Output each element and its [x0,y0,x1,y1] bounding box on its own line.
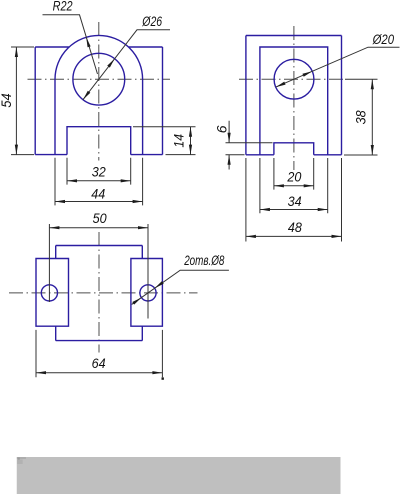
svg-text:54: 54 [0,93,14,107]
front view boss sides [55,79,143,154]
side view hole circle d20 [274,59,314,99]
svg-text:32: 32 [92,164,106,180]
svg-text:Ø26: Ø26 [142,13,163,29]
front view boss arc R22 [55,35,143,79]
svg-text:34: 34 [288,193,302,209]
radius R22 leader [43,15,98,74]
dimension 20 line [274,185,314,187]
faint stamp smudge on title block corner [17,457,26,459]
front view centerline horizontal [28,78,171,80]
dimension 64 line [36,372,162,374]
dimension 64 extension lines [36,330,162,377]
side view centerline vertical [293,26,295,170]
side view outer outline [246,36,342,155]
dimension 32 extension lines [67,158,131,185]
svg-text:50: 50 [93,210,107,226]
dimension 48 arrows [246,235,256,238]
dimension 54 extension lines [11,47,34,155]
dimension 64 arrows [36,371,46,374]
dimension 14 line [190,127,192,155]
dimension 6 arrow legs [228,121,230,170]
dimension 34 arrows [260,208,270,211]
dimension 44 line [55,201,143,203]
label 2 holes d8 arrows [155,281,164,288]
svg-text:2отв.Ø8: 2отв.Ø8 [183,253,224,268]
dimension 48 extension lines [246,158,342,242]
diameter d26 arrows [107,59,114,68]
grayed title block [17,457,341,494]
side view bottom notch [274,143,314,155]
dimension 6 arrows [228,133,231,143]
dimension 14 arrows [189,127,192,137]
svg-text:R22: R22 [53,0,73,13]
dimension 44 arrows [55,200,65,203]
svg-text:20: 20 [287,169,302,185]
diameter d20 arrows [302,71,312,76]
dimension 32 line [67,180,131,182]
dimension 50 line [49,227,148,229]
dimension 20 extension lines [274,158,314,190]
bottom view central body outline [56,246,143,341]
label 2 holes d8 leader [132,270,229,304]
side view centerline extension for 38 [345,78,378,80]
dimension 50 arrows [49,226,59,229]
front view body outline [35,47,162,155]
bottom view right ear [131,259,163,327]
svg-text:48: 48 [288,219,302,235]
svg-text:64: 64 [92,355,106,371]
svg-text:44: 44 [91,185,105,201]
dimension 44 extension lines [55,158,143,206]
dimension 50 extension lines through holes [49,224,148,319]
dimension 38 arrows [371,79,374,89]
svg-text:Ø20: Ø20 [372,31,394,47]
bottom view centerline horizontal [9,292,198,294]
dimension 34 extension lines [260,158,328,213]
front view centerline vertical [98,22,100,161]
dimension 54 line [15,47,17,155]
dimension 14 extension lines [133,127,196,155]
diameter d20 leader [276,47,400,87]
stray ink dot [162,377,164,379]
svg-text:38: 38 [352,110,368,124]
bottom view left ear [36,259,69,327]
radius R22 arrow [86,37,90,47]
svg-text:14: 14 [170,134,186,148]
side view inner slot outline [260,47,328,155]
diameter d26 leader [83,30,170,100]
dimension 54 arrows [15,47,18,57]
dimension 48 line [246,235,342,237]
front view bottom notch [67,127,131,155]
dimension 38 extension line bottom [344,154,378,156]
dimension 32 arrows [67,179,77,182]
dimension 20 arrows [274,184,284,187]
dimension 34 line [260,209,328,211]
dimension 6 extension lines [226,143,273,155]
dimension 38 line [371,79,373,155]
svg-text:6: 6 [213,125,229,133]
side view centerline horizontal [239,78,345,80]
bottom view centerline vertical [98,232,100,353]
front view hole circle d26 [73,53,125,105]
bottom view right hole d8 [140,285,156,301]
bottom view left hole d8 [41,285,57,301]
